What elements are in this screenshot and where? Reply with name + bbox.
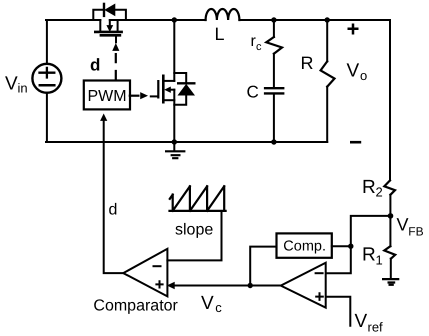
svg-text:o: o	[360, 68, 367, 83]
wire dashed gate drive to Q2	[130, 95, 139, 97]
resistor R1	[384, 246, 395, 258]
wire switch node to Q2 drain	[173, 20, 175, 81]
transistor Q1 high-side MOSFET	[99, 20, 101, 31]
wire rc to C	[273, 54, 275, 87]
svg-text:L: L	[215, 24, 225, 44]
svg-text:R: R	[301, 53, 314, 73]
svg-text:in: in	[18, 81, 28, 96]
resistor R2	[384, 180, 395, 194]
wire Vin top lead	[46, 20, 48, 64]
resistor rc	[266, 37, 282, 54]
wire error amp plus to Vref	[327, 297, 351, 326]
svg-text:V: V	[397, 215, 409, 235]
svg-text:2: 2	[376, 185, 383, 200]
ground below R1	[383, 279, 398, 285]
wire Vin bottom lead	[46, 93, 48, 142]
svg-text:d: d	[109, 201, 118, 218]
wire bottom rail	[46, 141, 327, 143]
node VFB	[388, 213, 394, 219]
node switch node dot	[172, 17, 177, 22]
wire dashed gate drive to Q1	[115, 54, 117, 79]
wire C bottom	[273, 95, 275, 142]
node Q2 source ground junction	[172, 139, 177, 144]
svg-text:R: R	[362, 245, 376, 266]
wire top rail right of Q1	[110, 19, 206, 21]
wire rc branch top	[273, 20, 275, 37]
wire Comp right lead	[332, 245, 351, 247]
diode D1 body diode of Q1	[93, 10, 126, 20]
node compensation junction	[348, 244, 353, 249]
wire top rail after inductor	[239, 19, 390, 21]
wire VFB to error amp minus	[327, 216, 391, 273]
svg-text:FB: FB	[408, 225, 423, 239]
svg-text:V: V	[355, 311, 368, 332]
svg-text:Comp.: Comp.	[283, 239, 326, 255]
wire vc line error amp output to comparator	[173, 285, 281, 287]
resistor R load	[326, 20, 328, 61]
capacitor C	[265, 87, 283, 89]
wire Comp left lead	[250, 247, 276, 286]
svg-text:V: V	[347, 61, 360, 82]
diode D2 body diode of Q2	[174, 73, 186, 105]
label minus Vo	[350, 141, 361, 144]
op-amp U1 error amplifier	[281, 263, 326, 308]
transistor Q2 low-side MOSFET	[164, 80, 174, 82]
svg-text:R: R	[362, 177, 376, 198]
wire VFB to R1	[389, 216, 391, 246]
svg-text:Comparator: Comparator	[93, 298, 178, 315]
svg-text:V: V	[201, 293, 214, 314]
wire comparator minus to slope	[167, 211, 221, 260]
svg-text:slope: slope	[175, 222, 213, 239]
op-amp U2 PWM comparator	[123, 249, 167, 297]
wire top rail left	[46, 19, 100, 21]
svg-text:V: V	[5, 74, 18, 95]
voltage source Vin	[32, 64, 61, 93]
label plus Vo	[348, 24, 359, 35]
svg-text:PWM: PWM	[88, 88, 127, 105]
svg-text:1: 1	[376, 253, 383, 268]
svg-text:d: d	[90, 55, 100, 74]
waveform sawtooth slope ramp	[170, 210, 226, 212]
inductor L	[206, 9, 240, 20]
svg-text:ref: ref	[368, 320, 384, 335]
svg-text:c: c	[256, 41, 262, 53]
svg-text:c: c	[215, 300, 222, 315]
wire right rail Vo	[389, 20, 391, 180]
node C branch bottom junction	[271, 139, 276, 144]
block Comp. compensation box	[277, 233, 332, 257]
svg-text:C: C	[247, 83, 259, 102]
block PWM modulator box	[84, 81, 130, 110]
wire comparator output to PWM	[104, 120, 124, 273]
ground power ground	[173, 142, 175, 150]
node C branch top junction	[271, 17, 276, 22]
node R branch top junction	[325, 17, 330, 22]
node vc junction	[248, 283, 253, 288]
